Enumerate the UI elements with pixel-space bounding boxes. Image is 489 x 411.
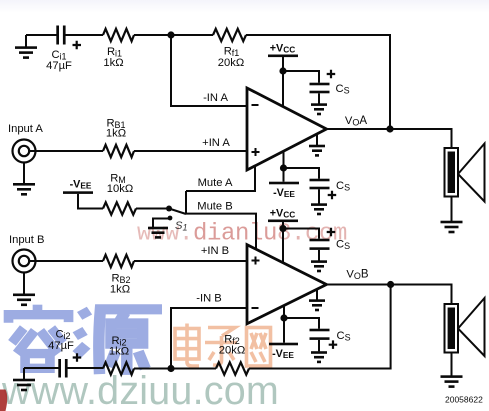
svg-text:CS: CS bbox=[336, 239, 350, 252]
speaker A bbox=[445, 144, 485, 202]
wire RM to switch pole bbox=[136, 208, 169, 210]
wire VCC B stem bbox=[282, 222, 284, 263]
wire Rf2 to feedback B corner bbox=[249, 285, 391, 369]
wire Cs1 ground stem bbox=[318, 93, 320, 103]
svg-text:47µF: 47µF bbox=[48, 340, 74, 352]
junction node Ri1/Rf1/-IN A bbox=[167, 31, 174, 38]
wire Cs2 ground stem bbox=[318, 189, 320, 203]
svg-text:-VEE: -VEE bbox=[70, 179, 92, 191]
ground Cs4 bbox=[311, 351, 327, 363]
resistor Rf2 bbox=[216, 362, 249, 374]
svg-text:20kΩ: 20kΩ bbox=[219, 345, 245, 357]
wire Ci2 to Ri2 bbox=[68, 367, 104, 369]
connector Input A bbox=[13, 140, 36, 163]
junction node VoB bbox=[387, 281, 394, 288]
resistor RB1 bbox=[103, 145, 134, 157]
svg-text:Mute B: Mute B bbox=[197, 201, 232, 213]
svg-text:Input B: Input B bbox=[9, 234, 44, 246]
ground input B bbox=[13, 294, 35, 307]
wire RB1 to +IN A bbox=[134, 150, 247, 152]
wire switch lever S1 bbox=[169, 209, 186, 215]
junction node VCC B bbox=[279, 225, 286, 232]
ground switch S1 bbox=[148, 227, 168, 239]
connector Input B bbox=[13, 250, 36, 273]
speaker B bbox=[445, 298, 485, 356]
watermark red corner mark bbox=[0, 390, 7, 411]
capacitor Cs3 plates bbox=[310, 239, 330, 242]
wire Input A to RB1 bbox=[29, 150, 103, 152]
wire top rail A bbox=[26, 34, 57, 36]
ground top-left bbox=[15, 46, 37, 59]
ground Cs3 bbox=[311, 260, 327, 272]
capacitor Cs1 plates bbox=[310, 83, 330, 86]
power rail bar +VCC A bbox=[268, 55, 298, 58]
svg-text:VOA: VOA bbox=[345, 115, 367, 128]
svg-text:+IN B: +IN B bbox=[201, 245, 229, 257]
svg-text:+VCC: +VCC bbox=[270, 43, 296, 55]
svg-text:+VCC: +VCC bbox=[270, 208, 296, 220]
power rail bar +VCC B bbox=[268, 220, 298, 223]
svg-text:CS: CS bbox=[336, 83, 350, 96]
watermark blue char yuan bbox=[77, 309, 162, 375]
plus sign Ci1 bbox=[73, 41, 82, 50]
switch contact dot bbox=[168, 216, 173, 221]
svg-text:+IN A: +IN A bbox=[202, 137, 230, 149]
svg-text:Mute A: Mute A bbox=[198, 177, 233, 189]
wire VCC B branch to Cs bbox=[283, 229, 319, 239]
wire -VEE A branch to Cs bbox=[284, 168, 320, 179]
capacitor Ci2 bbox=[58, 359, 61, 378]
wire -VEE RM stem bbox=[78, 194, 103, 209]
junction node VCC A bbox=[279, 67, 286, 74]
resistor Ri1 bbox=[103, 29, 134, 41]
wire Ri1 to Rf1 bbox=[134, 34, 213, 36]
power rail bar -VEE RM bbox=[63, 191, 93, 194]
wire Ri2 to Rf2 bbox=[134, 368, 216, 370]
wire -VEE A stem bbox=[283, 151, 285, 182]
capacitor Cs4 plates bbox=[310, 329, 330, 332]
wire input A ground stem bbox=[23, 163, 25, 184]
watermark orange char wang bbox=[247, 328, 271, 367]
svg-text:1kΩ: 1kΩ bbox=[109, 346, 129, 358]
resistor Ri2 bbox=[103, 362, 134, 374]
wire -VEE B stem bbox=[283, 306, 285, 343]
ground opamp B output bbox=[309, 299, 325, 311]
junction node Ri2/Rf2/-IN B bbox=[167, 365, 174, 372]
svg-text:CS: CS bbox=[337, 330, 351, 343]
wire speaker A ground stem bbox=[451, 197, 453, 222]
svg-text:www.dianlu8.com: www.dianlu8.com bbox=[137, 221, 347, 248]
wire VoA output bbox=[327, 129, 452, 148]
wire VCC A branch to Cs bbox=[283, 71, 319, 83]
ground Cs1 bbox=[311, 103, 327, 115]
wire RB2 to +IN B bbox=[134, 260, 247, 262]
capacitor Ci1 bbox=[56, 26, 59, 45]
wire Mute A bbox=[186, 166, 255, 191]
wire VCC A stem bbox=[282, 57, 284, 107]
svg-text:www.dziuu.com: www.dziuu.com bbox=[1, 369, 279, 411]
watermark orange char dian bbox=[175, 324, 199, 367]
wire Input B to RB2 bbox=[29, 260, 103, 262]
svg-text:20kΩ: 20kΩ bbox=[218, 57, 244, 69]
wire Ci2 left bbox=[24, 367, 59, 369]
wire Cs3 ground stem bbox=[318, 250, 320, 261]
wire Ci1 to Ri1 bbox=[66, 34, 104, 36]
wire -IN B bbox=[171, 308, 247, 369]
svg-text:-IN B: -IN B bbox=[196, 293, 221, 305]
svg-text:VOB: VOB bbox=[346, 269, 368, 282]
junction node -VEE A bbox=[280, 164, 287, 171]
wire Mute B bbox=[186, 214, 256, 249]
ground input A bbox=[13, 183, 35, 196]
op-amp U1A bbox=[247, 88, 327, 170]
svg-text:-IN A: -IN A bbox=[203, 92, 228, 104]
svg-text:20058622: 20058622 bbox=[445, 395, 483, 405]
wire Ci2 ground stem bbox=[23, 368, 25, 379]
plus sign Cs4 bbox=[329, 340, 338, 349]
junction node -VEE B bbox=[280, 314, 287, 321]
plus sign Cs1 bbox=[327, 70, 336, 79]
wire Cs4 ground stem bbox=[318, 340, 320, 352]
junction node VoA bbox=[386, 125, 393, 132]
svg-text:1kΩ: 1kΩ bbox=[106, 128, 126, 140]
resistor RB2 bbox=[103, 255, 134, 267]
switch pole dot bbox=[166, 206, 172, 212]
power rail bar -VEE A bbox=[269, 182, 299, 185]
wire opamp A ground stem bbox=[316, 135, 318, 146]
ground speaker A bbox=[441, 221, 463, 234]
watermark blue char rong bbox=[9, 305, 69, 369]
plus sign Cs3 bbox=[327, 228, 336, 237]
wire speaker B ground stem bbox=[451, 353, 453, 376]
capacitor Cs2 plates bbox=[310, 179, 330, 182]
svg-text:Input A: Input A bbox=[8, 123, 43, 135]
resistor Rf1 bbox=[213, 29, 246, 41]
plus sign Cs2 bbox=[328, 191, 337, 200]
ground opamp A output bbox=[309, 145, 325, 157]
resistor RM bbox=[103, 202, 136, 214]
svg-text:S1: S1 bbox=[175, 220, 187, 233]
wire opamp B ground stem bbox=[316, 289, 318, 300]
watermark orange char zi bbox=[205, 328, 237, 366]
wire node to -IN A bbox=[171, 35, 247, 106]
svg-text:1kΩ: 1kΩ bbox=[110, 284, 130, 296]
ground speaker B bbox=[441, 375, 463, 388]
ground Ci2 bbox=[13, 379, 35, 392]
svg-text:-VEE: -VEE bbox=[272, 348, 294, 360]
wire -VEE B branch to Cs bbox=[284, 318, 319, 329]
svg-text:10kΩ: 10kΩ bbox=[107, 183, 133, 195]
svg-text:47µF: 47µF bbox=[46, 60, 72, 72]
wire Rf1 to feedback corner bbox=[246, 35, 390, 129]
wire switch contact to ground bbox=[153, 219, 170, 228]
wire input B ground stem bbox=[23, 273, 25, 294]
svg-text:CS: CS bbox=[336, 180, 350, 193]
op-amp U1B bbox=[247, 245, 327, 324]
plus sign Ci2 bbox=[73, 353, 82, 362]
wire VoB output bbox=[327, 285, 452, 304]
svg-text:-VEE: -VEE bbox=[273, 187, 295, 199]
wire mute bracket bbox=[185, 191, 187, 214]
wire ground stem top-left bbox=[25, 35, 27, 47]
power rail bar -VEE B bbox=[269, 343, 298, 346]
svg-text:1kΩ: 1kΩ bbox=[103, 57, 123, 69]
ground Cs2 bbox=[311, 203, 327, 215]
